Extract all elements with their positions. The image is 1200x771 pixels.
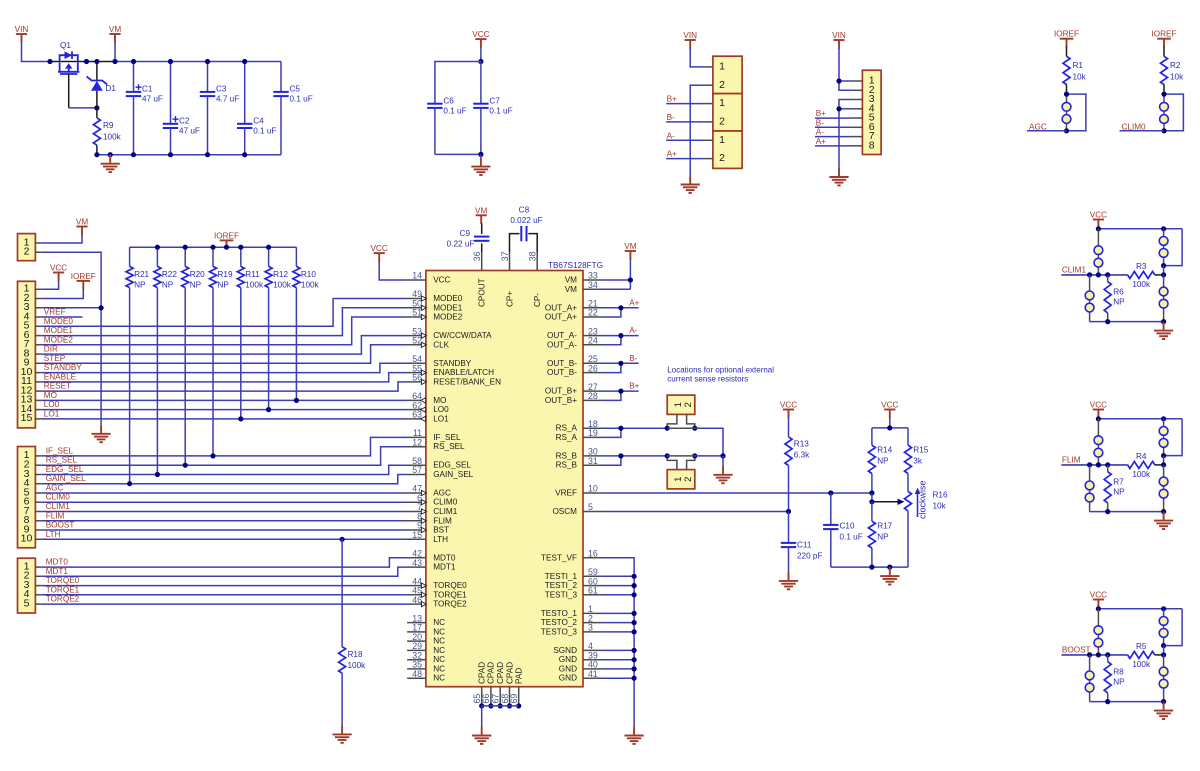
junction pin3 gnd [99,305,104,310]
power flag VCC (IC) [374,253,385,262]
svg-text:VM: VM [109,25,121,34]
svg-text:34: 34 [588,280,598,290]
svg-text:VREF: VREF [44,308,66,317]
svg-text:63: 63 [412,410,422,420]
svg-text:R8: R8 [1113,667,1124,676]
svg-text:0.1 uF: 0.1 uF [253,127,276,136]
wire RS_A jumper span [667,427,695,429]
svg-text:B+: B+ [816,109,826,118]
svg-text:R6: R6 [1113,287,1124,296]
wire MDT0 to IC [41,558,407,567]
junction OUT B- [618,361,623,366]
wire IOREF stem [226,247,228,248]
capacitor C7 0.1uF [480,62,482,104]
wire STANDBY to IC [41,363,407,372]
svg-text:R19: R19 [218,270,233,279]
capacitor C8 0.022uF [510,234,520,252]
svg-text:10: 10 [21,533,33,545]
junction C1 top [131,59,136,64]
diode D1 (zener) [96,62,98,81]
svg-text:NP: NP [162,281,174,290]
svg-text:10k: 10k [1170,73,1184,82]
connector 2-pin block A2 [713,94,742,131]
svg-text:GND: GND [559,674,577,683]
wire VREF to wiper node [871,493,873,502]
svg-text:R12: R12 [273,270,288,279]
svg-text:clockwise: clockwise [918,480,928,519]
svg-text:VM: VM [624,242,636,251]
svg-text:R5: R5 [1136,642,1147,651]
svg-text:STANDBY: STANDBY [433,359,472,368]
svg-text:TORQE2: TORQE2 [433,600,467,609]
svg-text:RS_B: RS_B [556,451,578,460]
power flag VIN (connector A) [685,40,696,49]
IC right pins [583,279,602,281]
svg-text:AGC: AGC [1029,122,1047,131]
svg-text:BOOST: BOOST [1062,645,1091,654]
IC left pins [407,279,426,281]
wire TEST_VF/GND collector [602,558,635,727]
ground (connector B) [829,168,848,185]
svg-text:B+: B+ [667,95,677,104]
svg-text:46: 46 [412,595,422,605]
wire RS_A to gnd column [695,428,723,456]
junction C4 bottom [242,152,247,157]
svg-text:C2: C2 [179,117,190,126]
svg-text:A-: A- [629,326,637,335]
svg-text:C6: C6 [443,97,454,106]
capacitor C3 4.7uF [207,62,209,92]
wire MODE0 to IC [41,299,407,327]
junction R9 bottom [94,152,99,157]
svg-text:LO1: LO1 [433,414,449,423]
ground (IC right) [625,727,644,744]
svg-text:LO0: LO0 [44,400,60,409]
svg-text:C8: C8 [519,206,530,215]
wire RS_A pins [602,427,668,429]
svg-text:43: 43 [412,558,422,568]
svg-text:VM: VM [475,206,487,215]
wire MDT1 to IC [41,567,407,576]
wire OUT pair B+ [602,390,639,392]
ground (input section) [101,155,120,172]
svg-text:CLIM0: CLIM0 [433,498,458,507]
svg-text:NP: NP [877,533,889,542]
svg-text:R9: R9 [103,121,114,130]
wire VIN to rail [22,42,51,62]
svg-text:52: 52 [412,336,422,346]
svg-text:GAIN_SEL: GAIN_SEL [433,470,473,479]
svg-text:B-: B- [816,118,824,127]
svg-text:CLIM0: CLIM0 [46,493,71,502]
svg-text:37: 37 [500,251,510,261]
svg-text:NC: NC [433,646,445,655]
resistor R22 NP pullup [156,247,158,266]
svg-text:CPOUT: CPOUT [478,278,487,307]
svg-text:3k: 3k [913,457,923,466]
potentiometer R16 10k [905,491,912,510]
clockwise arrow [917,492,919,517]
svg-text:14: 14 [412,271,422,281]
wire LO0 to IC [41,409,407,411]
connector VM pin stubs [35,242,41,244]
junction D1 top [94,59,99,64]
resistor R17 NP [871,502,873,521]
resistor R11 100k pullup [240,247,242,266]
svg-text:VCC: VCC [881,401,898,410]
capacitor C10 0.1uF [828,490,833,495]
svg-text:R11: R11 [245,270,260,279]
wire VM stem [114,42,116,62]
ground (C11) [779,572,798,589]
svg-text:CPAD: CPAD [487,662,496,684]
wire FLIM to IC [41,520,407,522]
svg-text:TORQE0: TORQE0 [46,576,80,585]
svg-text:CLIM0: CLIM0 [1122,122,1147,131]
BOOST limit block (R5 100k, R8 NP, jumper pads) [1093,600,1104,609]
svg-text:2: 2 [719,116,725,128]
svg-text:26: 26 [588,363,598,373]
svg-text:FLIM: FLIM [1062,455,1081,464]
junction jumper2 left [665,453,670,458]
svg-text:100k: 100k [301,281,320,290]
junction jumper1 left [665,426,670,431]
wire OUT pair A- [602,335,639,337]
svg-text:RS_A: RS_A [556,433,578,442]
svg-text:C7: C7 [489,97,500,106]
svg-text:R10: R10 [301,270,316,279]
svg-text:A+: A+ [816,137,826,146]
wire RS_B past jumper [695,455,723,457]
svg-text:OUT_A-: OUT_A- [547,340,577,349]
connector 15-pin stubs [35,288,41,290]
junction RS_B [618,453,623,458]
wire CLIM1 to IC [41,511,407,513]
svg-text:MODE0: MODE0 [44,317,74,326]
svg-text:OUT_B-: OUT_B- [547,359,577,368]
wire ENABLE to IC [41,373,407,382]
svg-text:BOOST: BOOST [46,521,75,530]
svg-text:47 uF: 47 uF [142,95,163,104]
svg-text:VCC: VCC [1090,211,1107,220]
svg-text:5: 5 [24,597,30,609]
connector 8-pin B [862,70,881,154]
svg-text:GND: GND [559,655,577,664]
svg-text:38: 38 [528,251,538,261]
junction C7 top [478,59,483,64]
svg-text:C5: C5 [290,85,301,94]
svg-text:100k: 100k [1132,280,1151,289]
svg-text:OUT_A-: OUT_A- [547,331,577,340]
svg-text:IF_SEL: IF_SEL [433,433,461,442]
junction C4 top [242,59,247,64]
wire OUT pair A+ [602,307,639,309]
power flag IOREF (left) [77,281,91,290]
svg-text:OUT_A+: OUT_A+ [545,303,577,312]
svg-text:NP: NP [1113,297,1125,306]
svg-text:CP+: CP+ [505,291,514,307]
junction jumper1 right [692,426,697,431]
svg-text:C4: C4 [253,117,264,126]
svg-text:IOREF: IOREF [1151,30,1176,39]
svg-text:A+: A+ [629,298,639,307]
wire MODE1 to IC [41,308,407,336]
power flag VM [109,34,120,43]
svg-text:RS_B: RS_B [556,461,578,470]
wire EDG_SEL to IC [41,465,407,474]
resistor R19 NP pullup [212,247,214,266]
wire VCC to pin 14 [379,261,407,280]
svg-text:BST: BST [433,526,449,535]
wire OSCM row [602,511,789,513]
svg-text:VM: VM [565,276,577,285]
svg-text:6.3k: 6.3k [794,451,810,460]
junction C2 bottom [168,152,173,157]
svg-text:GND: GND [559,664,577,673]
svg-text:NC: NC [433,618,445,627]
svg-text:TEST_VF: TEST_VF [541,553,577,562]
wire VIN to pin1 [690,48,703,67]
svg-text:FLIM: FLIM [433,516,452,525]
power flag VCC (left) [53,273,64,282]
svg-text:TESTI_3: TESTI_3 [545,590,578,599]
svg-text:2: 2 [683,477,694,482]
svg-text:R20: R20 [190,270,205,279]
resistor R14 NP [871,428,873,445]
svg-text:5: 5 [588,502,593,512]
svg-text:CLK: CLK [433,340,449,349]
svg-text:TESTO_3: TESTO_3 [541,627,578,636]
svg-text:NC: NC [433,627,445,636]
ground (C6/C7) [480,154,482,157]
wire A+ (A) [666,158,703,160]
svg-text:8: 8 [869,139,875,151]
svg-text:MO: MO [44,391,57,400]
svg-text:R1: R1 [1073,61,1084,70]
svg-text:MODE1: MODE1 [433,303,463,312]
svg-text:R21: R21 [134,270,149,279]
svg-text:ENABLE: ENABLE [44,372,77,381]
svg-text:31: 31 [588,456,598,466]
wire VM rail [115,61,281,63]
junction Q1 drain [84,59,89,64]
resistor R1 10k with AGC jumper pads [1060,39,1074,48]
capacitor C4 0.1uF [244,62,246,124]
wire RESET to IC [41,382,407,391]
wire BOOST to IC [41,529,407,531]
svg-text:24: 24 [588,336,598,346]
resistor R10 100k pullup [295,247,297,266]
wire IOREF rail [130,246,297,248]
svg-text:48: 48 [412,669,422,679]
wire TORQE0 to IC [41,585,407,587]
connector 10-pin stubs [35,455,41,457]
svg-text:C10: C10 [840,522,855,531]
node junction VIN-Q1 [47,59,52,64]
wire bottom gnd rail [97,154,281,156]
svg-text:R15: R15 [913,446,928,455]
svg-text:NP: NP [190,281,202,290]
junction C2 top [168,59,173,64]
svg-text:NP: NP [1113,677,1125,686]
svg-text:10: 10 [588,484,598,494]
IC bottom pads [481,687,483,706]
resistor R13 6.3k [788,418,790,437]
svg-text:GAIN_SEL: GAIN_SEL [46,474,86,483]
svg-text:R3: R3 [1136,262,1147,271]
svg-text:TORQE0: TORQE0 [433,581,467,590]
IC top pins (CPOUT/CP+/CP-) [481,252,483,271]
wire B+ (A) [666,103,703,105]
wire IF_SEL to IC [41,437,407,456]
svg-text:RS_A: RS_A [556,424,578,433]
wire OUT pair B- [602,362,639,364]
connector sense jumper 1 (RS_A) [667,395,695,414]
wire pot bottom rail [831,566,908,568]
CLIM1 limit block (R3 100k, R6 NP, jumper pads) [1093,220,1104,229]
resistor R2 10k with CLIM0 jumper pads [1157,39,1171,48]
svg-text:CP-: CP- [533,293,542,307]
svg-text:B+: B+ [629,382,639,391]
capacitor C9 0.22uF [481,223,483,234]
svg-text:CLIM1: CLIM1 [46,502,71,511]
svg-text:D1: D1 [106,84,117,93]
resistor R9 100k [96,108,98,118]
svg-text:A-: A- [816,128,824,137]
svg-text:OUT_A+: OUT_A+ [545,313,577,322]
svg-text:16: 16 [588,549,598,559]
ground (sense jumpers) [722,456,724,466]
svg-text:TESTO_1: TESTO_1 [541,609,578,618]
svg-text:VCC: VCC [472,30,489,39]
svg-text:1: 1 [719,134,725,146]
svg-text:3: 3 [588,623,593,633]
ground (pot) [880,567,899,584]
wire pin2 gnd bus [690,85,703,175]
svg-text:CW/CCW/DATA: CW/CCW/DATA [433,331,492,340]
svg-text:R22: R22 [162,270,177,279]
svg-text:RESET/BANK_EN: RESET/BANK_EN [433,377,501,386]
wire A- (B) [815,136,851,138]
svg-text:STANDBY: STANDBY [44,363,83,372]
wire A- (A) [666,139,703,141]
capacitor C6 0.1uF [435,62,481,104]
svg-text:C9: C9 [460,229,471,238]
junction IOREF stem [224,245,229,250]
svg-text:EDG_SEL: EDG_SEL [433,461,471,470]
svg-text:IF_SEL: IF_SEL [46,446,74,455]
svg-text:RS_SEL: RS_SEL [433,442,465,451]
junction OUT B+ [618,389,623,394]
connector 15-pin [18,281,36,428]
wire VM pins 33/34 [629,259,631,289]
svg-text:NC: NC [433,637,445,646]
svg-text:CPAD: CPAD [496,662,505,684]
svg-text:R4: R4 [1136,452,1147,461]
svg-text:C1: C1 [142,85,153,94]
svg-text:VIN: VIN [832,31,846,40]
wire LO1 to IC [41,418,407,420]
resistor R21 NP pullup [129,247,131,266]
svg-text:0.1 uF: 0.1 uF [489,107,512,116]
svg-text:R16: R16 [933,491,948,500]
wire AGC to IC [41,492,407,494]
svg-text:15: 15 [412,530,422,540]
wire A+ (B) [815,145,851,147]
svg-text:VREF: VREF [555,489,577,498]
svg-text:EDG_SEL: EDG_SEL [46,465,84,474]
power flag VIN (connector B) [833,40,844,49]
node gate-D1-R9 [94,105,99,110]
svg-text:NP: NP [218,281,230,290]
wire rail through Q1 region [50,61,115,63]
connector 2-pin block A3 [713,131,742,168]
svg-text:NC: NC [433,674,445,683]
ground (connector A) [681,176,700,193]
power flag IOREF (pullups) [220,240,234,249]
wire Q1 gate [68,74,70,108]
capacitor C5 0.1uF [280,62,282,92]
svg-text:AGC: AGC [46,484,64,493]
junction gnd pin4 [836,106,841,111]
junction jumper2 right [692,453,697,458]
power flag VIN [16,34,27,43]
svg-text:DIR: DIR [44,345,58,354]
svg-text:2: 2 [719,152,725,164]
svg-text:0.1 uF: 0.1 uF [443,107,466,116]
svg-text:2: 2 [683,402,694,407]
svg-text:69: 69 [509,694,519,704]
svg-text:47 uF: 47 uF [179,127,200,136]
power flag VM (left) [76,227,87,236]
svg-text:A-: A- [667,131,675,140]
svg-text:MDT1: MDT1 [46,567,69,576]
svg-text:B-: B- [629,354,637,363]
wire TORQE1 to IC [41,594,407,596]
svg-text:IOREF: IOREF [1054,30,1079,39]
svg-text:VM: VM [76,218,88,227]
svg-text:Q1: Q1 [60,41,71,50]
capacitor C2 47uF [170,62,172,124]
svg-text:TORQE2: TORQE2 [46,595,80,604]
wire GAIN_SEL to IC [41,475,407,484]
svg-text:22: 22 [588,308,598,318]
power flag VCC (R13) [783,410,794,419]
svg-text:36: 36 [472,251,482,261]
svg-text:28: 28 [588,391,598,401]
svg-text:current sense resistors: current sense resistors [667,375,748,384]
wire TORQE2 to IC [41,603,407,605]
svg-text:TORQE1: TORQE1 [433,590,467,599]
svg-text:19: 19 [588,428,598,438]
junction C3 bottom [205,152,210,157]
svg-text:OUT_B+: OUT_B+ [545,396,577,405]
svg-text:0.1 uF: 0.1 uF [290,95,313,104]
wire MO to IC [41,399,407,401]
svg-text:B-: B- [667,113,675,122]
wire IOREF pin2 [41,289,83,299]
wire CLIM0 to IC [41,501,407,503]
svg-text:SGND: SGND [553,646,577,655]
junction R14/VREF [869,490,874,495]
capacitor C11 220pF [788,512,790,543]
svg-text:56: 56 [412,373,422,383]
wire VCC pin1 [41,281,58,290]
junction VM pin33 [628,277,633,282]
svg-text:R17: R17 [877,522,892,531]
svg-text:2: 2 [24,246,30,258]
junction gnd stem [108,152,113,157]
